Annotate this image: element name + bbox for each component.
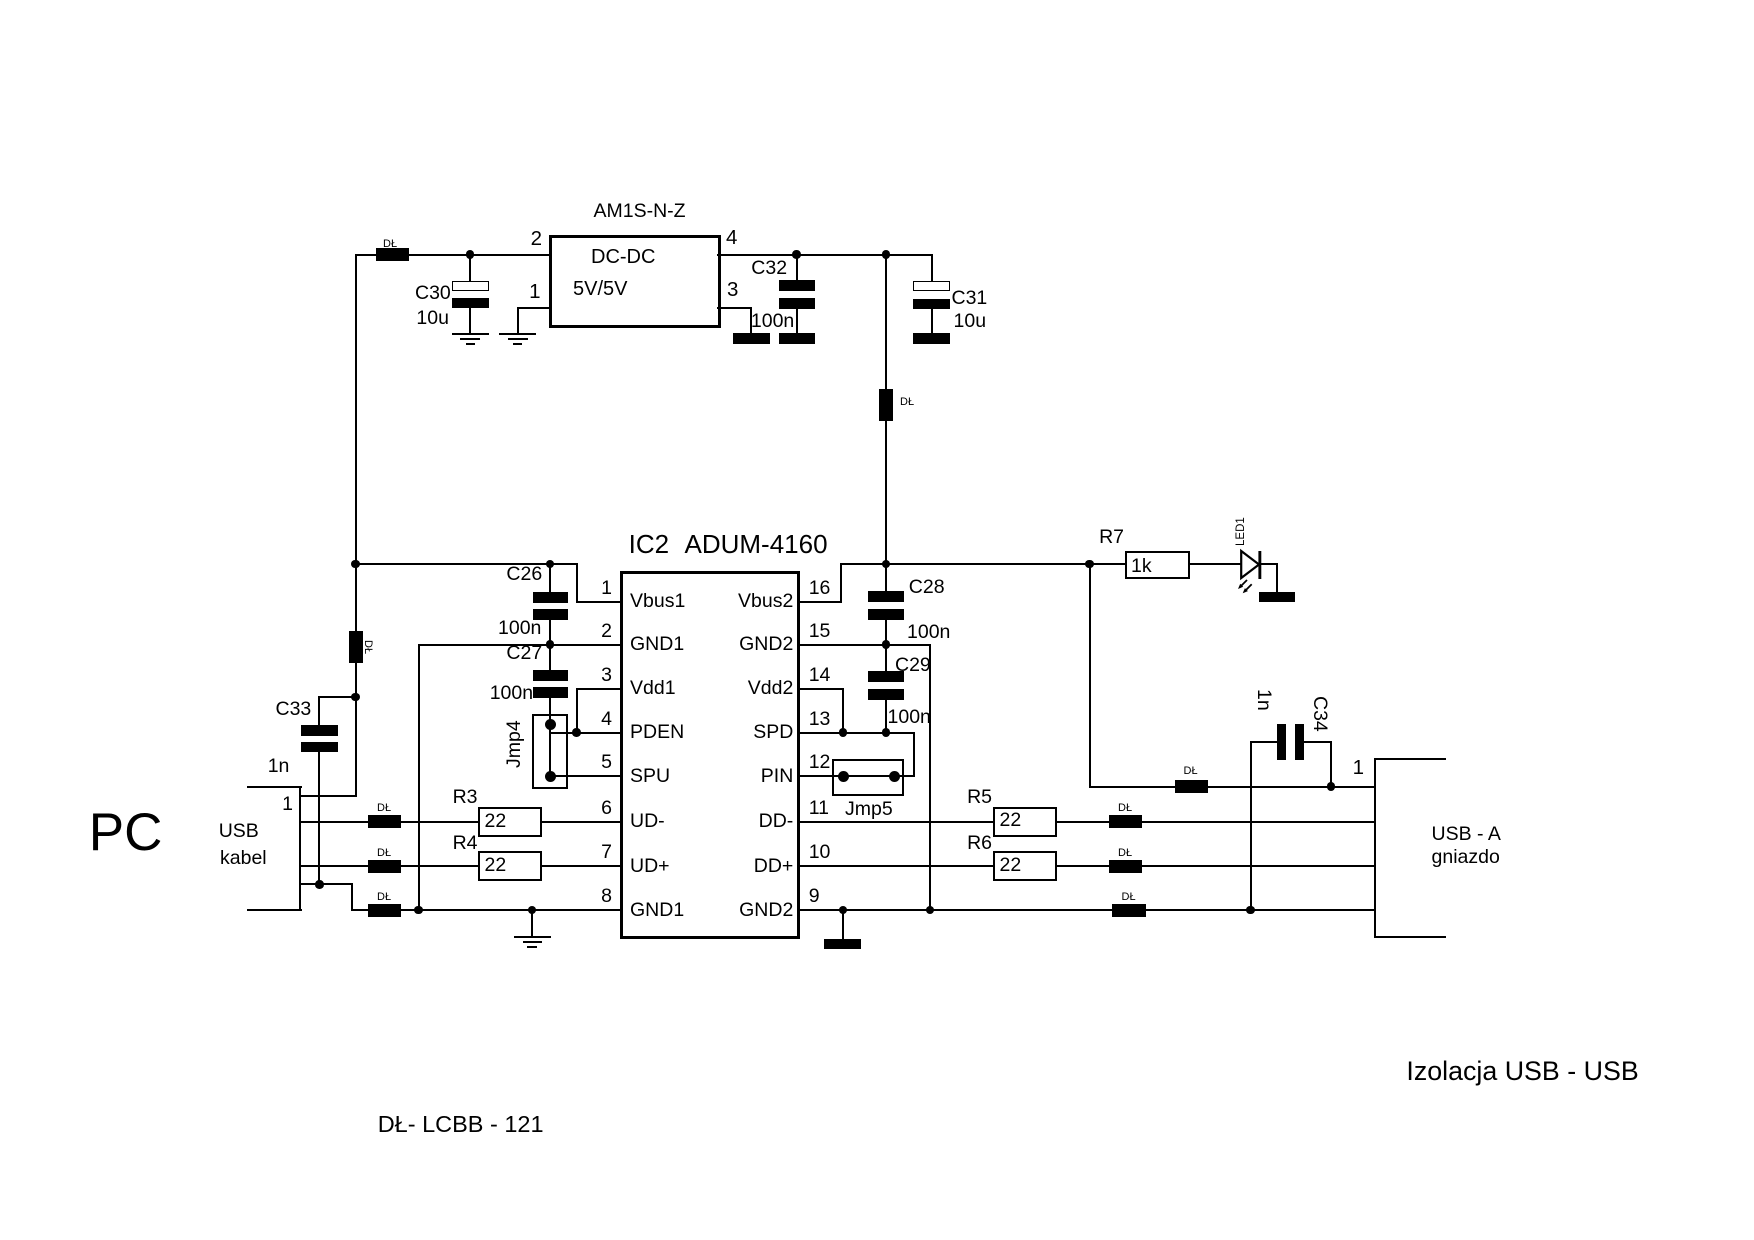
node: junction at C30 tap (466, 250, 475, 259)
wire: Vdd1 horizontal into IC (576, 688, 623, 690)
ferrite bead DŁ (vertical, on main left vertical) (349, 631, 363, 663)
LED LED1 symbol (triangle, cathode bar, light arrows) (1230, 540, 1300, 610)
label C29 (895, 656, 931, 676)
wire: GND1 vertical (pin2 to pin8 row) (418, 644, 420, 912)
value 10u for C31 (954, 312, 987, 332)
pin name GND1 (pin8) (630, 901, 684, 921)
pin number 2 (DC-DC) (531, 229, 542, 250)
label C31 (952, 289, 988, 309)
wire: USB kabel gnd jog horizontal (300, 883, 351, 885)
node: junction at C31 branch (882, 250, 891, 259)
label DŁ (DD- ferrite) (1118, 803, 1132, 814)
capacitor C26 plate 2 (533, 609, 568, 620)
pin number 1 (DC-DC) (529, 282, 540, 303)
wire: gnd jog vertical (351, 883, 353, 911)
label DŁ (Vbus2 ferrite) (1184, 766, 1198, 777)
wire: DD+ pin10 to R6 (798, 865, 996, 867)
label USB (219, 822, 259, 842)
wire: SPU horizontal into IC (549, 775, 622, 777)
jumper Jmp5 box (832, 759, 904, 796)
label C32 (751, 259, 787, 279)
value 1n for C34 (rotated) (1253, 689, 1273, 711)
capacitor C33 plate 1 (301, 725, 339, 736)
capacitor C30 bottom plate (452, 298, 489, 308)
wire: C30 to ground (469, 307, 471, 335)
pin name SPU (630, 767, 670, 787)
pin number 9 (809, 887, 820, 907)
resistor R4 box (478, 851, 542, 881)
wire: C26 top stub (549, 563, 551, 594)
label DŁ for top-left ferrite (383, 239, 397, 250)
wire: C28 bottom stub (885, 619, 887, 646)
wire: SPD pin13 horizontal (798, 732, 915, 734)
pin number 4 (601, 710, 612, 730)
ferrite bead DŁ (vertical, right) (879, 389, 893, 421)
value 1n for C33 (268, 757, 290, 777)
capacitor C26 plate 1 (533, 592, 568, 603)
node: junction at C32 tap (792, 250, 801, 259)
pin number 5 (601, 753, 612, 773)
pad below pin9 (824, 939, 862, 950)
wire: Vbus1 horizontal at IC level (355, 563, 579, 565)
wire: pin1 horizontal into IC (576, 601, 622, 603)
pin number 1 (USB-A) (1353, 758, 1364, 779)
value 22 for R5 (1000, 811, 1022, 831)
pin name GND2 (pin15) (739, 635, 793, 655)
wire: ground stub below GND1 row (531, 909, 533, 938)
connector USB-A (bottom edge) (1374, 936, 1446, 938)
wire: Vdd1-PDEN jog vertical (576, 688, 578, 734)
node: junction pin9 pad stub (839, 906, 848, 915)
wire: pin1 jog vertical (576, 563, 578, 603)
label LED1 (rotated) (1236, 517, 1248, 546)
wire: GND1 pin2 horizontal (418, 644, 623, 646)
wire: C29 top stub (885, 644, 887, 672)
wire: GND2 vertical (pin15 to pin9 row) (929, 644, 931, 912)
wire: PIN pin12 horizontal through Jmp5 to jog (798, 775, 915, 777)
pin name Vdd2 (748, 679, 794, 699)
ground symbol under C30 (452, 333, 489, 335)
label Jmp5 (845, 800, 893, 820)
connector USB-A (top edge) (1374, 758, 1446, 760)
capacitor C29 plate 2 (868, 689, 904, 700)
value 100n for C28 (907, 623, 950, 643)
wire: C34 left horizontal (1250, 741, 1279, 743)
value 100n for C32 (751, 312, 794, 332)
pin number 3 (601, 666, 612, 686)
wire: C34 right vertical down to Vbus2 row (1330, 741, 1332, 788)
pin number 6 (601, 799, 612, 819)
jumper Jmp5 pin circle right (889, 771, 900, 782)
label DŁ (UD- ferrite) (377, 803, 391, 814)
wire: LED corner down to pad (1276, 563, 1278, 593)
wire: R4 to IC pin 7 (541, 865, 622, 867)
wire: GND2 pin9 row to USB-A (798, 909, 1376, 911)
ferrite bead DŁ on Vbus2 row (1175, 780, 1209, 793)
jumper Jmp4 pin circle bottom (545, 771, 556, 782)
ferrite bead DŁ on UD+ row (368, 860, 401, 873)
resistor R3 box (478, 807, 542, 837)
ferrite bead DŁ on UD- row (368, 815, 401, 828)
wire: SPD jog vertical down to Jmp5 (913, 732, 915, 778)
ground symbol on GND1 row (514, 936, 551, 938)
label C27 (506, 644, 542, 664)
label DŁ (GND1 ferrite) (377, 892, 391, 903)
wire: C34 right horizontal (1303, 741, 1332, 743)
wire: DD- pin11 to R5 (798, 821, 996, 823)
label Jmp4 (rotated) (505, 720, 525, 768)
label gniazdo (1432, 848, 1500, 868)
wire: main left vertical lower part (355, 662, 357, 797)
pin name UD+ (630, 857, 670, 877)
wire: LED cathode to corner (1261, 563, 1279, 565)
label R3 (453, 788, 478, 808)
value 1k for R7 (1131, 557, 1152, 577)
wire: C26 bottom stub (549, 619, 551, 645)
wire: C33 top jog horizontal (318, 696, 356, 698)
label DC-DC (591, 247, 655, 267)
wire: C31 to pad (931, 308, 933, 334)
ferrite bead DŁ on GND1 row (368, 904, 401, 917)
wire: Vbus2 row to USB-A (1089, 786, 1376, 788)
wire: R7 to LED anode (1188, 563, 1243, 565)
label DŁ (UD+ ferrite) (377, 848, 391, 859)
label C33 (276, 700, 312, 720)
label DŁ (GND2 ferrite) (1122, 892, 1136, 903)
wire: C32 top stub (796, 254, 798, 282)
capacitor C27 plate 2 (533, 687, 568, 698)
capacitor C31 (polarized, top plate outline) (913, 281, 950, 291)
pad below LED1 (1259, 592, 1295, 603)
connector USB kabel (top edge) (247, 786, 302, 788)
node: junction Vdd2 jog on SPD wire (839, 728, 848, 737)
wire: DC-DC pin 3 stub (717, 307, 752, 309)
capacitor C30 (polarized, top plate outline) (452, 281, 489, 291)
pad under C32 (779, 333, 816, 344)
pin name Vbus2 (738, 592, 793, 612)
pin number 15 (809, 622, 831, 642)
pin number 8 (601, 887, 612, 907)
pin number 11 (809, 799, 829, 819)
wire: pin9 pad stub (842, 909, 844, 940)
node: junction C28 top / ferrite vertical (882, 560, 891, 569)
label USB - A (1432, 825, 1501, 845)
title DŁ- LCBB - 121 (378, 1113, 544, 1137)
pin name PIN (761, 767, 794, 787)
pin number 10 (809, 843, 831, 863)
node: junction main vertical / Vbus1 horizontal (351, 560, 360, 569)
pin number 3 (DC-DC) (727, 280, 738, 301)
capacitor C34 plate 1 (vertical) (1277, 724, 1286, 761)
label kabel (220, 849, 267, 869)
label R5 (967, 788, 992, 808)
pin name Vbus1 (630, 592, 685, 612)
wire: C34 left vertical down to GND2 row (1250, 741, 1252, 911)
wire: Vdd2 pin14 horizontal (798, 688, 844, 690)
node: junction C26 bottom on GND1 pin2 wire (546, 640, 555, 649)
node: junction C34 left vertical on GND2 row (1246, 906, 1255, 915)
wire: C28 top stub (885, 563, 887, 592)
wire: DC-DC pin 4 output (horizontal) (717, 254, 933, 256)
ferrite bead DŁ on DD- row (1109, 815, 1142, 828)
wire: PDEN horizontal into IC (549, 732, 622, 734)
label R7 (1099, 528, 1124, 548)
value 22 for R4 (485, 856, 507, 876)
value 100n for C27 (490, 684, 533, 704)
label 5V/5V (573, 279, 627, 299)
pin number 12 (809, 753, 831, 773)
capacitor C28 plate 1 (868, 591, 904, 602)
jumper Jmp5 pin circle left (838, 771, 849, 782)
label IC2 (629, 531, 669, 557)
node: junction C28 bottom on pin15 wire (882, 640, 891, 649)
node: junction ground symbol tap on GND1 row (528, 906, 537, 915)
capacitor C32 plate 1 (779, 280, 816, 291)
node: junction C29 bottom on SPD wire (882, 728, 891, 737)
capacitor C29 plate 1 (868, 671, 904, 682)
wire: ferrite down to Vbus2 node (885, 420, 887, 565)
node: junction C33 top to main vertical (351, 693, 360, 702)
label C26 (506, 565, 542, 585)
resistor R6 box (993, 851, 1057, 881)
wire: Vdd2 jog vertical down to SPD (842, 688, 844, 734)
capacitor C34 plate 2 (vertical) (1295, 724, 1304, 761)
wire: pin16 jog vertical (840, 563, 842, 603)
wire: USB kabel UD- row to R3 (300, 821, 479, 823)
wire: pin16 horizontal (798, 601, 843, 603)
jumper Jmp4 box (532, 714, 568, 789)
label C28 (909, 578, 945, 598)
value 100n for C29 (888, 708, 931, 728)
wire: USB kabel UD+ row to R4 (300, 865, 479, 867)
pin number 14 (809, 666, 831, 686)
wire: R5 to USB-A (DD- row) (1055, 821, 1376, 823)
wire: R3 to IC pin 6 (541, 821, 622, 823)
wire: R6 to USB-A (DD+ row) (1055, 865, 1376, 867)
wire: C27 bottom down through Jmp4 (549, 697, 551, 777)
pin name PDEN (630, 723, 684, 743)
connector USB kabel (bottom edge) (247, 909, 302, 911)
label AM1S-N-Z (594, 202, 686, 222)
pin name SPD (753, 723, 793, 743)
node: junction GND2 vertical on pin9 row (926, 906, 935, 915)
pin number 16 (809, 579, 831, 599)
wire: net Vbus1 to DC-DC pin 2 (horizontal) (355, 254, 552, 256)
node: junction R7 branch on Vbus2 top wire (1085, 560, 1094, 569)
resistor R5 box (993, 807, 1057, 837)
label DŁ for left vertical ferrite (rotated) (362, 640, 373, 654)
label C34 (rotated) (1309, 696, 1329, 732)
jumper Jmp4 pin circle top (545, 719, 556, 730)
value 22 for R3 (485, 812, 507, 832)
pin number 13 (809, 710, 831, 730)
ferrite bead DŁ on DD+ row (1109, 860, 1142, 873)
pin name UD- (630, 812, 665, 832)
component U: DC-DC converter AM1S-N-Z box (549, 235, 721, 328)
wire: vertical from pin4 net down to ferrite (885, 254, 887, 390)
capacitor C28 plate 2 (868, 609, 904, 620)
pin number 4 (DC-DC) (726, 228, 737, 249)
capacitor C32 plate 2 (779, 298, 816, 309)
pin name GND2 (pin9) (739, 901, 793, 921)
wire: DC-DC pin 1 to ground (517, 307, 551, 309)
wire: C32 to pad (796, 308, 798, 334)
connector USB kabel (right edge) (299, 786, 301, 912)
pin number 1 (601, 579, 612, 599)
wire: C33 top stub vertical (318, 696, 320, 726)
ferrite bead DŁ on GND2 row (1112, 904, 1146, 917)
ground symbol under DC-DC pin 1 (499, 333, 536, 335)
pin number 1 (USB kabel) (282, 795, 293, 815)
label C30 (415, 284, 451, 304)
ferrite bead DŁ (top-left, on pin2 wire) (376, 248, 409, 261)
capacitor C31 bottom plate (913, 299, 950, 309)
resistor R7 box (1125, 551, 1190, 580)
pin name DD- (759, 812, 794, 832)
wire: C27 top stub (549, 644, 551, 672)
wire: GND2 pin15 horizontal (798, 644, 931, 646)
node: junction GND1 vertical meets GND1 row (414, 906, 423, 915)
capacitor C27 plate 1 (533, 670, 568, 681)
node: junction Vdd1/PDEN (572, 728, 581, 737)
pin name GND1 (pin2) (630, 635, 684, 655)
value 10u for C30 (416, 309, 449, 329)
wire: C33 bottom vertical down to gnd jog (318, 751, 320, 885)
label PC (89, 806, 163, 859)
pin number 7 (601, 843, 612, 863)
node: junction C26 top (546, 560, 555, 569)
value 100n for C26 (498, 619, 541, 639)
label ADUM-4160 (685, 531, 828, 557)
pin name Vdd1 (630, 679, 676, 699)
pin number 2 (601, 622, 612, 642)
wire: C30 top stub (469, 254, 471, 282)
pad under C31 (913, 333, 950, 344)
capacitor C33 plate 2 (301, 742, 339, 753)
label R6 (967, 834, 992, 854)
wire: USB kabel pin 1 to main vertical (300, 795, 356, 797)
node: junction C34 right on Vbus2 row (1327, 782, 1336, 791)
label R4 (453, 834, 478, 854)
wire: GND1 row from jog to IC pin 8 (351, 909, 622, 911)
wire: main left vertical (Vbus1) upper part (355, 254, 357, 632)
title Izolacja USB - USB (1406, 1058, 1638, 1085)
wire: Vbus2 top horizontal to R7 (840, 563, 1127, 565)
label DŁ for right vertical ferrite (900, 397, 914, 408)
label DŁ (DD+ ferrite) (1118, 848, 1132, 859)
wire: corner down to C31 (931, 254, 933, 282)
pin name DD+ (754, 857, 794, 877)
value 22 for R6 (1000, 856, 1022, 876)
connector USB-A (left edge) (1374, 758, 1376, 938)
wire: C29 bottom stub (885, 699, 887, 733)
wire: R7 branch vertical down to Vbus2 USB row (1089, 563, 1091, 788)
node: junction C33 bottom on gnd jog wire (315, 880, 324, 889)
pad under DC-DC pin 3 (733, 333, 770, 344)
IC2 box (620, 571, 801, 939)
